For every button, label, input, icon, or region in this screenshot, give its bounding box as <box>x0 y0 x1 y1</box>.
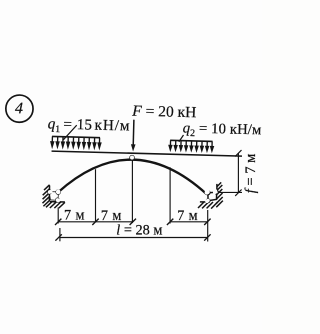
arch (parabola) <box>58 158 208 196</box>
crown hinge C <box>130 155 134 159</box>
link rods <box>51 191 59 194</box>
f dimension line <box>219 150 243 196</box>
svg-text:f = 7 м: f = 7 м <box>243 154 259 194</box>
dimension ticks row 1 <box>55 219 211 225</box>
svg-text:q2 = 10 кН/м: q2 = 10 кН/м <box>182 120 261 140</box>
wall hatching <box>216 182 223 207</box>
svg-text:q1=15кН/м: q1=15кН/м <box>47 115 130 137</box>
dimension line row 1 right <box>170 221 207 223</box>
support link frame <box>49 192 58 200</box>
leader line q1 <box>63 125 76 140</box>
right support B <box>198 182 223 208</box>
svg-text:l = 28 м: l = 28 м <box>116 223 162 239</box>
extension line quarter left <box>95 169 97 222</box>
ground hatching <box>198 202 217 209</box>
dimension ticks row 2 <box>55 234 210 240</box>
force F arrow <box>131 120 136 152</box>
svg-text:7 м: 7 м <box>101 208 122 224</box>
dimension line row 1 left <box>58 221 133 223</box>
support link frame <box>208 192 217 201</box>
extension line at support A <box>57 208 59 224</box>
ground hatching <box>198 203 222 209</box>
svg-text:7 м: 7 м <box>177 208 198 224</box>
support link frame <box>49 192 58 200</box>
ground line <box>199 202 213 204</box>
ground hatching <box>48 202 65 208</box>
ground hatching <box>46 202 65 209</box>
distributed load q2 comb <box>168 140 214 153</box>
ground hatching <box>46 202 65 209</box>
extension line at support A lower part <box>59 228 61 241</box>
hinge circles <box>206 191 210 195</box>
ground line <box>50 201 65 203</box>
distributed load q1 comb <box>50 136 102 150</box>
ground line <box>50 201 65 203</box>
wall hatching <box>42 185 49 207</box>
extension line at crown <box>131 160 133 223</box>
ground line <box>200 201 214 203</box>
hinge circles <box>49 190 53 194</box>
hinge circles <box>48 190 52 194</box>
hinge circles <box>205 190 209 194</box>
svg-text:4: 4 <box>15 100 23 117</box>
left support A <box>42 185 65 209</box>
ground line <box>50 201 65 203</box>
svg-text:7 м: 7 м <box>64 208 85 224</box>
extension line quarter right <box>169 167 171 223</box>
f bottom extension line <box>219 191 243 193</box>
hinge circles <box>48 190 51 193</box>
wall line <box>48 185 51 201</box>
svg-text:F = 20 кН: F = 20 кН <box>131 103 196 122</box>
wall line <box>216 184 218 190</box>
task number circle 4 <box>5 95 33 123</box>
hinge circles <box>206 190 210 194</box>
ground line <box>200 201 208 203</box>
leader line q2 <box>179 135 184 142</box>
link rods <box>207 191 215 194</box>
dimension line row 2 (l = 28 m) <box>60 237 208 239</box>
deck line (load line over arch) <box>52 151 242 156</box>
extension line at support B <box>207 210 209 242</box>
ground hatching <box>198 202 218 209</box>
support link frame <box>208 191 216 200</box>
